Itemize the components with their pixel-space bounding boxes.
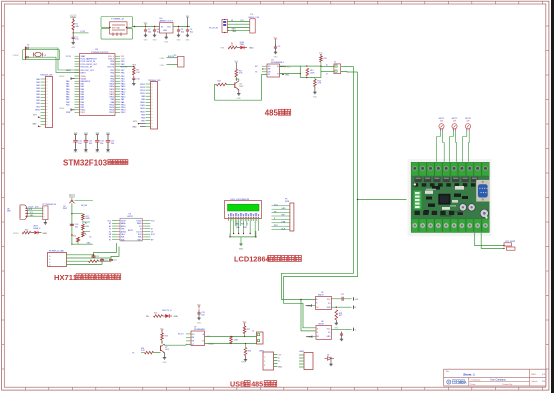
PLC bottom pad rows <box>415 211 420 215</box>
svg-text:HX711: HX711 <box>54 273 78 282</box>
crystal Y1 pins <box>109 27 110 28</box>
svg-text:GND: GND <box>43 233 48 235</box>
svg-text:PC13-TAMPER-RT: PC13-TAMPER-RT <box>81 58 98 61</box>
wire base left <box>141 352 145 354</box>
PLC top terminal blocks <box>411 162 418 176</box>
IC U7 body <box>191 331 205 346</box>
LCD1 body <box>225 201 262 219</box>
svg-text:DVDD: DVDD <box>137 220 143 222</box>
LCD1 gnd flag <box>240 237 242 242</box>
ground cap row 2 <box>85 148 87 150</box>
svg-text:PA11: PA11 <box>121 93 125 96</box>
svg-text:PA0: PA0 <box>66 80 69 83</box>
resistor R22 <box>154 315 163 318</box>
wire branch to PLC board <box>358 199 407 201</box>
svg-text:PA6: PA6 <box>36 96 39 99</box>
wire motor M1 left <box>437 131 441 162</box>
PLC relay driver row <box>415 177 422 182</box>
PLC DB9 connector <box>476 180 489 202</box>
svg-text:R20: R20 <box>73 236 76 238</box>
resistor R1 <box>72 18 74 20</box>
svg-text:AVDD: AVDD <box>121 225 127 228</box>
svg-text:W5: W5 <box>146 316 149 318</box>
connector P3 body <box>222 20 228 33</box>
svg-text:PB11: PB11 <box>81 112 85 114</box>
svg-text:GND: GND <box>241 362 246 364</box>
svg-text:C10: C10 <box>136 79 139 81</box>
svg-text:PA5: PA5 <box>66 93 69 96</box>
svg-text:PA11: PA11 <box>140 104 144 107</box>
svg-text:PB12: PB12 <box>140 84 145 86</box>
connector P8 body <box>48 253 67 267</box>
svg-text:PA9: PA9 <box>141 98 144 101</box>
header P7 body <box>43 206 48 220</box>
svg-text:GND: GND <box>95 152 100 154</box>
svg-text:PA10: PA10 <box>121 96 125 99</box>
connector CN1 pins <box>25 207 27 209</box>
svg-text:PA4: PA4 <box>66 90 69 93</box>
wire VCC to Q3 <box>71 197 73 199</box>
resistor R11 <box>235 63 237 70</box>
svg-text:PA5: PA5 <box>81 93 84 96</box>
svg-text:PA7: PA7 <box>66 98 69 101</box>
svg-text:C17: C17 <box>341 294 344 296</box>
svg-text:C6: C6 <box>27 44 29 46</box>
LCD1 screen <box>228 204 260 211</box>
junction R1 bottom <box>73 29 74 30</box>
wire U7 B <box>205 343 257 345</box>
svg-text:GND: GND <box>74 152 79 154</box>
wires CN1 to P7 <box>27 207 43 209</box>
resistor R25 termination <box>230 336 233 343</box>
svg-text:PB13: PB13 <box>140 87 145 89</box>
transistor Q3 <box>71 200 73 201</box>
ground under R28 <box>335 320 337 322</box>
svg-text:GND: GND <box>163 30 168 32</box>
svg-text:PA10: PA10 <box>140 101 144 104</box>
svg-text:120R: 120R <box>234 340 239 342</box>
IC U1 VCC pin <box>280 66 285 68</box>
svg-text:C13: C13 <box>104 260 107 262</box>
wire R23 down <box>161 340 163 344</box>
resistor R16 <box>22 231 31 234</box>
svg-text:PB12: PB12 <box>121 112 126 114</box>
svg-text:PA12: PA12 <box>110 90 114 93</box>
wire crystal to MCU PC14 <box>28 48 79 70</box>
svg-text:EDA: EDA <box>459 381 467 385</box>
svg-text:R23: R23 <box>165 336 168 338</box>
wire regulator output <box>173 26 190 28</box>
svg-text:PB4: PB4 <box>141 117 145 119</box>
wire R11 to junction <box>235 77 237 81</box>
green box around crystal Y2 <box>23 50 60 60</box>
svg-text:GND4: GND4 <box>59 108 64 110</box>
svg-text:GND: GND <box>186 40 191 42</box>
svg-text:RATE: RATE <box>137 222 142 225</box>
capacitor C11 across rail <box>70 223 74 225</box>
svg-text:400R: 400R <box>85 218 90 220</box>
crystal circuit green box bottom <box>101 28 133 39</box>
svg-text:3V3: 3V3 <box>33 115 36 117</box>
svg-text:PA0: PA0 <box>36 78 39 81</box>
svg-text:PA2: PA2 <box>81 85 84 88</box>
svg-text:9013: 9013 <box>165 349 169 351</box>
svg-text:RX_TX: RX_TX <box>178 334 184 336</box>
capacitor C14 <box>110 258 112 259</box>
svg-text:PA7: PA7 <box>36 99 39 102</box>
svg-text:VSSA: VSSA <box>81 75 87 78</box>
svg-text:GND: GND <box>237 98 242 100</box>
svg-text:PA14: PA14 <box>110 85 114 88</box>
svg-text:NRST: NRST <box>66 70 72 72</box>
ground under C4 <box>178 34 180 36</box>
resistor R27 pullup <box>244 325 246 327</box>
IC U6 body <box>316 326 332 340</box>
connector P2 pins <box>146 83 151 85</box>
svg-text:GND: GND <box>274 57 279 59</box>
right black strip (app background) <box>551 0 554 393</box>
svg-text:PA3: PA3 <box>36 87 39 90</box>
wire loop to J1 A <box>321 66 334 68</box>
svg-text:PA12: PA12 <box>140 107 144 110</box>
wire U1 A line <box>280 65 301 67</box>
capacitor C11 <box>75 135 77 141</box>
svg-text:PC13: PC13 <box>81 31 86 33</box>
svg-text:DB0: DB0 <box>236 227 240 229</box>
svg-text:J2: J2 <box>252 331 254 333</box>
junction dots loop <box>306 65 307 66</box>
capacitor C16 on VCC <box>332 298 342 300</box>
resistor R10 <box>228 46 237 49</box>
IC U1 body <box>267 64 280 77</box>
capacitor C3 <box>154 28 156 30</box>
capacitor C13 <box>96 135 98 141</box>
svg-text:D+: D+ <box>278 361 280 363</box>
svg-text:PA6: PA6 <box>66 96 69 99</box>
MCU left pins and labels <box>75 55 80 57</box>
crystal Y2 body <box>35 52 41 56</box>
LED D3 <box>163 315 165 317</box>
wires P3 to P4 <box>228 21 250 23</box>
transistor Q1 <box>234 83 236 89</box>
svg-text:PA10: PA10 <box>110 96 114 99</box>
svg-text:PWR: PWR <box>240 44 245 46</box>
svg-text:VBG: VBG <box>121 234 125 236</box>
LCD1 junction dots <box>233 233 234 234</box>
wire 485-B long run <box>284 72 358 328</box>
svg-text:Sheet:: Sheet: <box>532 380 539 383</box>
capacitor C14 <box>107 135 109 141</box>
svg-text:GND: GND <box>177 40 182 42</box>
capacitor C13 <box>101 258 103 259</box>
resistor R17 <box>82 214 85 220</box>
svg-text:GND: GND <box>132 127 137 129</box>
capacitor C4 <box>178 28 180 30</box>
motor M3 symbol <box>465 124 470 129</box>
svg-text:104: 104 <box>100 143 103 145</box>
resistor R23 <box>161 332 163 334</box>
svg-text:PB1: PB1 <box>36 106 40 108</box>
svg-text:PA13: PA13 <box>110 88 114 91</box>
ground under Q1 <box>238 90 240 92</box>
PLC electrolytic capacitors <box>459 204 466 211</box>
connector P4 body <box>250 19 255 33</box>
svg-text:C14: C14 <box>113 259 116 261</box>
resistor R20 bottom <box>77 237 80 242</box>
junction dots on 3V3 rail <box>134 26 135 27</box>
PLC bottom terminal blocks <box>411 219 418 233</box>
svg-text:9012: 9012 <box>63 208 67 210</box>
svg-text:RT1 JUMP: RT1 JUMP <box>506 241 516 243</box>
svg-text:GND4: GND4 <box>59 76 64 78</box>
title block table <box>444 369 546 386</box>
svg-text:485: 485 <box>251 380 263 389</box>
wire motor M3 left <box>463 131 467 162</box>
svg-text:PA9: PA9 <box>111 98 114 101</box>
wire J1 out B <box>341 71 358 74</box>
svg-text:PA1: PA1 <box>81 83 84 86</box>
svg-text:PA2: PA2 <box>66 85 69 88</box>
connector J2 body <box>257 332 264 344</box>
capacitor C9 <box>275 45 277 47</box>
svg-text:PB10: PB10 <box>35 109 40 111</box>
svg-text:NRST: NRST <box>81 72 87 74</box>
resistor R14 below loop <box>314 78 316 80</box>
svg-text:A1: A1 <box>109 225 111 228</box>
svg-text:104: 104 <box>78 143 81 145</box>
ground cap row 4 <box>107 148 109 150</box>
svg-text:3V3: 3V3 <box>133 121 136 123</box>
wire motor M3 right <box>467 131 470 162</box>
wire U5 output <box>332 306 352 308</box>
svg-text:PA12: PA12 <box>121 90 125 93</box>
svg-text:PB15: PB15 <box>140 93 145 95</box>
svg-text:RW: RW <box>282 215 285 217</box>
junction dots crystal <box>25 47 26 48</box>
svg-text:REV:: REV: <box>532 374 537 376</box>
svg-text:PA0-WKUP: PA0-WKUP <box>81 80 91 83</box>
svg-text:R22: R22 <box>154 313 157 315</box>
capacitor C12 <box>93 254 95 257</box>
svg-text:SIP8: SIP8 <box>285 201 289 203</box>
svg-text:R12: R12 <box>218 81 221 83</box>
svg-text:INA-: INA- <box>121 236 125 239</box>
svg-text:GND: GND <box>163 362 168 364</box>
wire Q3 base right <box>75 200 93 202</box>
svg-text:P9: P9 <box>285 199 287 201</box>
wire ladder to rail top <box>72 213 83 215</box>
svg-text:GND: GND <box>144 40 149 42</box>
ground under C3 <box>154 34 156 36</box>
ground under Q2 <box>164 353 166 356</box>
svg-text:104: 104 <box>75 226 78 228</box>
terminator component <box>504 243 512 246</box>
resistor R3 <box>133 68 136 76</box>
PLC silkscreen hints <box>426 188 436 191</box>
svg-text:PA4: PA4 <box>81 90 84 93</box>
capacitor C2 <box>145 28 147 30</box>
ground under D4 <box>330 360 332 362</box>
svg-text:USB2: USB2 <box>299 351 304 353</box>
IC U2 pins <box>118 220 121 222</box>
capacitor C15 <box>198 308 200 312</box>
svg-text:CHEN_D: CHEN_D <box>33 228 41 230</box>
svg-text:Date:: Date: <box>471 383 477 386</box>
svg-text:Drawn By:: Drawn By: <box>503 383 513 386</box>
svg-text:VCC: VCC <box>71 16 76 18</box>
connector P9 pins <box>272 205 290 207</box>
svg-text:GND: GND <box>106 152 111 154</box>
PLC MCU chip <box>438 194 450 205</box>
wire filter up2 <box>111 247 119 259</box>
failsafe loop <box>300 66 321 77</box>
svg-text:PA15: PA15 <box>110 83 114 86</box>
MCU right pins and labels <box>115 55 120 57</box>
capacitor C8 NRST <box>72 35 74 37</box>
svg-text:PA13: PA13 <box>121 88 125 91</box>
crystal circuit green box top <box>101 17 133 28</box>
svg-text:C605: C605 <box>160 65 165 67</box>
svg-text:Company:: Company: <box>471 380 481 382</box>
svg-text:A+: A+ <box>85 222 87 225</box>
svg-text:D4: D4 <box>327 354 329 356</box>
svg-text:GND: GND <box>282 208 287 210</box>
svg-text:BASE: BASE <box>121 222 127 225</box>
wire ladder branch 1 <box>72 213 83 215</box>
connector USB2 body <box>304 353 313 370</box>
svg-text:BOOT0: BOOT0 <box>108 66 114 68</box>
svg-text:C606: C606 <box>160 58 165 60</box>
svg-text:J1: J1 <box>334 62 336 64</box>
svg-text:PB1: PB1 <box>66 104 70 106</box>
svg-text:8M XTAL: 8M XTAL <box>112 27 121 30</box>
P3 pin dots <box>227 27 228 28</box>
svg-text:RW: RW <box>241 224 244 226</box>
junction dots regulator output <box>178 26 179 27</box>
svg-text:DOUT: DOUT <box>137 231 143 233</box>
svg-text:STM32F103: STM32F103 <box>63 158 108 167</box>
svg-text:P3_5V_IN: P3_5V_IN <box>209 27 218 29</box>
LED D1 <box>237 47 240 49</box>
svg-text:3V3: 3V3 <box>132 64 135 66</box>
wire ladder bottom rail <box>72 243 93 245</box>
wire PLC bottom out 2 <box>481 233 504 249</box>
svg-text:GND: GND <box>153 40 158 42</box>
svg-text:4K7: 4K7 <box>339 315 342 317</box>
svg-text:P5: P5 <box>174 55 176 57</box>
svg-text:GND: GND <box>32 124 37 126</box>
svg-text:10u: 10u <box>190 32 193 34</box>
ground under C2 <box>145 34 147 36</box>
ground under P7 <box>44 220 46 221</box>
svg-text:B1: B1 <box>109 223 111 225</box>
wire Q2 collector to U7 <box>164 344 166 345</box>
LED D2 <box>31 232 34 234</box>
svg-text:104: 104 <box>111 143 114 145</box>
svg-text:VDDA: VDDA <box>81 77 87 80</box>
svg-text:GND: GND <box>87 242 92 244</box>
svg-text:AGND: AGND <box>121 230 127 233</box>
svg-text:B+: B+ <box>90 237 92 239</box>
svg-text:PB6: PB6 <box>110 72 114 74</box>
svg-text:INB-: INB- <box>138 237 142 239</box>
svg-text:V1: V1 <box>109 229 111 231</box>
svg-text:PB12: PB12 <box>109 112 114 114</box>
wires to BOOT header <box>167 57 178 59</box>
svg-text:PA1: PA1 <box>66 83 69 86</box>
svg-text:PA6: PA6 <box>81 96 84 99</box>
connector P1 pins <box>41 78 46 80</box>
regulator U4 body <box>160 23 174 34</box>
wire motor M2 left <box>450 131 454 162</box>
connector USB2 pins <box>299 354 304 356</box>
capacitor C6 <box>25 47 27 60</box>
connector USB1 pins <box>274 354 278 356</box>
svg-text:Y1 8MHZ_JZ: Y1 8MHZ_JZ <box>111 19 125 21</box>
svg-text:P1: P1 <box>109 239 111 241</box>
svg-text:E+: E+ <box>49 256 51 258</box>
svg-text:G1: G1 <box>109 231 111 233</box>
svg-text:GND: GND <box>313 96 318 98</box>
svg-text:C1608: C1608 <box>13 55 20 57</box>
ground under R26 <box>245 356 247 359</box>
svg-text:PB3: PB3 <box>141 114 145 116</box>
svg-text:104: 104 <box>75 39 78 41</box>
ground under C5 <box>187 34 189 36</box>
capacitor C7 <box>26 56 28 58</box>
svg-text:GND: GND <box>232 31 237 33</box>
svg-text:PA4: PA4 <box>36 90 39 93</box>
svg-text:S+: S+ <box>49 265 51 267</box>
svg-text:PB14: PB14 <box>140 90 145 92</box>
svg-text:VCC: VCC <box>70 196 75 198</box>
wire motor M1 right <box>443 131 445 162</box>
capacitor C10 below R3 <box>133 76 135 78</box>
svg-text:INA+: INA+ <box>121 238 125 241</box>
wire filter up to U2 <box>94 243 117 255</box>
svg-text:GND: GND <box>239 249 244 251</box>
svg-text:PB6: PB6 <box>121 72 125 74</box>
resistor R15 <box>320 54 322 56</box>
LCD1 pin name ticks and stubs <box>228 214 230 216</box>
IC U7 left pins <box>186 333 191 335</box>
svg-text:9013: 9013 <box>239 86 243 88</box>
svg-text:PA3: PA3 <box>66 88 69 91</box>
svg-text:P4: P4 <box>251 14 253 16</box>
svg-text:GND: GND <box>197 322 202 324</box>
LCD1 wires down <box>229 221 231 237</box>
svg-text:PA3: PA3 <box>81 88 84 91</box>
ground cap row 3 <box>96 148 98 150</box>
LCD1 bottom bus wire <box>230 236 256 238</box>
junction R15 to A line <box>320 62 322 66</box>
svg-text:GND: GND <box>174 316 179 318</box>
wire PLC bottom out <box>475 233 504 246</box>
svg-text:PA7: PA7 <box>81 98 84 101</box>
wire riser to U6 pin1 <box>301 300 316 331</box>
svg-text:HX711: HX711 <box>128 230 133 232</box>
svg-text:C12: C12 <box>96 256 99 258</box>
wire J1 out A <box>341 66 354 68</box>
MCU U3 body <box>80 54 116 116</box>
svg-text:GND: GND <box>121 59 126 61</box>
svg-text:HX_EN: HX_EN <box>81 205 88 207</box>
svg-text:DB9: DB9 <box>7 211 11 213</box>
svg-text:PA8: PA8 <box>111 101 114 104</box>
wire loop to J1 B <box>321 71 334 73</box>
connector USB1 body <box>263 352 274 370</box>
IC U2 body <box>120 218 142 241</box>
